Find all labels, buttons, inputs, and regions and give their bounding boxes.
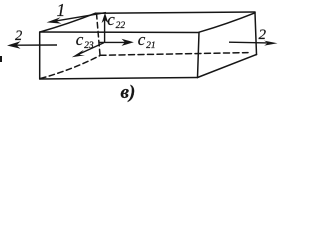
box front-left vertical edge bbox=[39, 32, 41, 79]
box top-left slant edge bbox=[40, 13, 96, 32]
svg-text:c: c bbox=[138, 30, 146, 49]
svg-text:23: 23 bbox=[84, 41, 94, 51]
box front-right vertical edge bbox=[198, 33, 200, 78]
arrow c21 (horizontal, right) bbox=[100, 39, 134, 46]
arrow 2 right (points at right wall) bbox=[229, 41, 278, 46]
hidden back-left vertical edge (dashed) bbox=[97, 14, 101, 56]
svg-text:2: 2 bbox=[15, 28, 22, 44]
box front bottom edge bbox=[40, 78, 198, 80]
box back top edge bbox=[96, 12, 256, 13]
svg-text:1: 1 bbox=[57, 0, 66, 20]
scan artifact at left image edge bbox=[0, 56, 2, 62]
svg-text:в): в) bbox=[121, 82, 136, 103]
hidden bottom-left diagonal edge (dashed) bbox=[41, 56, 101, 79]
hidden back bottom edge (dashed) bbox=[100, 53, 248, 56]
arrow 2 left (points at left wall) bbox=[7, 41, 57, 49]
box front top edge bbox=[40, 31, 199, 34]
arrow c23 (down-left) bbox=[72, 43, 104, 58]
svg-text:22: 22 bbox=[116, 21, 126, 31]
arrow c22 (vertical, up) bbox=[102, 13, 109, 43]
svg-text:21: 21 bbox=[146, 41, 156, 51]
svg-text:c: c bbox=[76, 30, 84, 49]
box top-right slant edge bbox=[199, 13, 255, 32]
arrow 1 (points at top face) bbox=[47, 13, 107, 24]
box back-right vertical edge bbox=[255, 13, 257, 55]
box bottom-right slant edge bbox=[198, 55, 257, 78]
svg-text:2: 2 bbox=[259, 27, 267, 43]
svg-text:c: c bbox=[107, 10, 115, 29]
